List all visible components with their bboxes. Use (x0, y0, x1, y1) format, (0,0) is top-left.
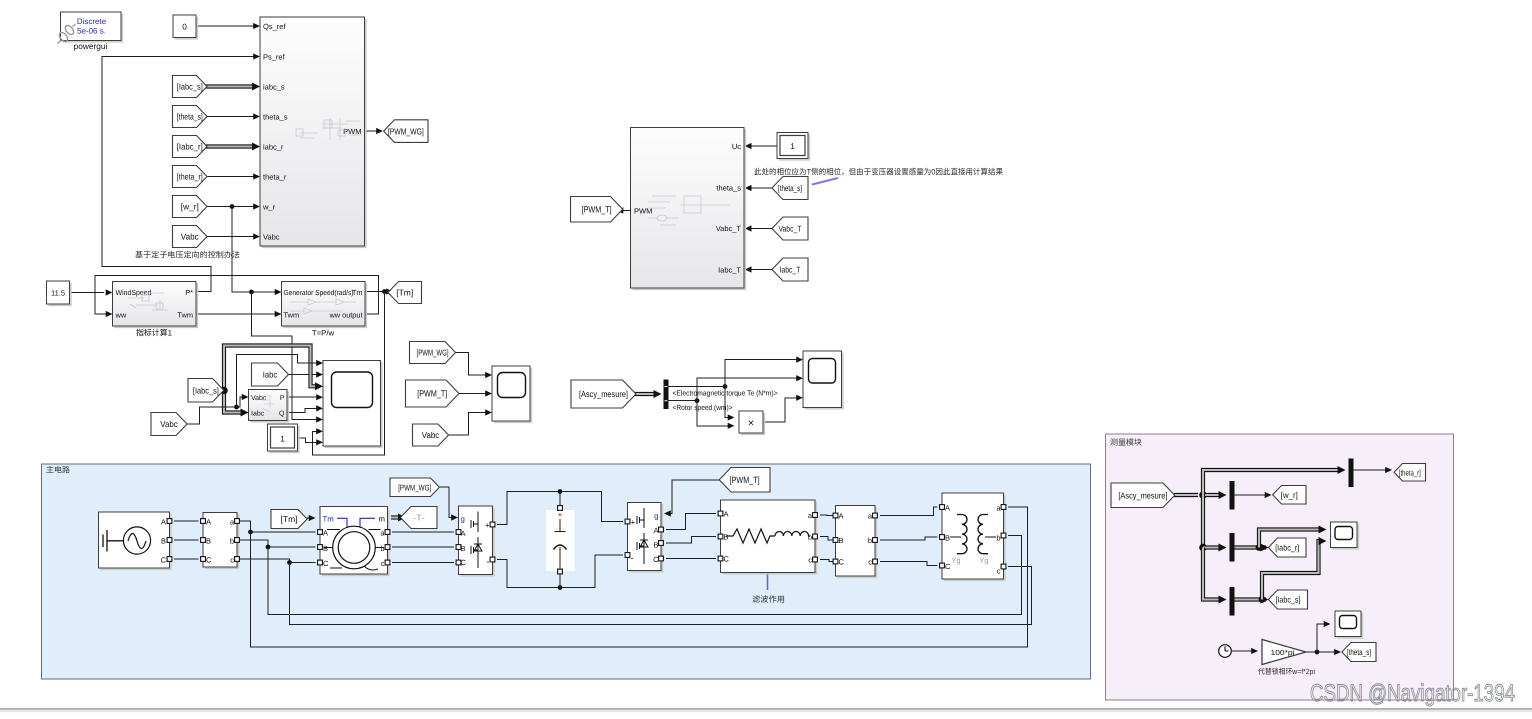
svg-text:g: g (654, 511, 658, 520)
svg-text:主电路: 主电路 (46, 466, 70, 475)
svg-text:c: c (230, 555, 234, 564)
svg-text:-: - (487, 557, 490, 567)
svg-text:<Electromagnetic torque Te (N*: <Electromagnetic torque Te (N*m)> (673, 388, 778, 397)
svg-text:c: c (997, 567, 1001, 576)
svg-text:<Rotor speed (wm)>: <Rotor speed (wm)> (673, 403, 733, 412)
svg-text:B: B (724, 533, 729, 542)
svg-text:Vabc: Vabc (251, 394, 267, 402)
svg-text:[Ascy_mesure]: [Ascy_mesure] (579, 389, 628, 399)
svg-text:+: + (558, 511, 563, 520)
svg-text:[Iabc_s]: [Iabc_s] (193, 385, 219, 395)
svg-text:[Tm]: [Tm] (396, 288, 413, 298)
svg-text:Vabc_T: Vabc_T (716, 224, 742, 233)
svg-text:100*pi: 100*pi (1271, 648, 1295, 657)
svg-text:[PWM_T]: [PWM_T] (417, 389, 447, 399)
svg-text:[theta_s]: [theta_s] (778, 183, 802, 193)
svg-text:[Tm]: [Tm] (281, 514, 298, 524)
svg-text:[theta_r]: [theta_r] (177, 172, 203, 182)
svg-text:Iabc: Iabc (263, 370, 278, 380)
svg-text:1: 1 (280, 433, 285, 443)
svg-text:-T-: -T- (413, 513, 425, 523)
svg-text:[PWM_T]: [PWM_T] (730, 475, 760, 485)
svg-text:此处的相位应为T侧的相位，但由于变压器设置感量为0因此直接用: 此处的相位应为T侧的相位，但由于变压器设置感量为0因此直接用计算结果 (754, 168, 1003, 177)
svg-text:Tm: Tm (323, 514, 334, 523)
svg-text:B: B (653, 541, 658, 550)
svg-text:C: C (724, 555, 730, 564)
svg-text:Uc: Uc (732, 142, 741, 151)
svg-text:c: c (868, 558, 872, 567)
svg-text:iabc_r: iabc_r (263, 142, 284, 151)
svg-text:1: 1 (790, 141, 795, 151)
svg-text:C: C (323, 559, 329, 568)
svg-text:ww output: ww output (329, 311, 363, 320)
svg-text:[Iabc_s]: [Iabc_s] (177, 82, 203, 92)
svg-text:CSDN @Navigator-1394: CSDN @Navigator-1394 (1310, 680, 1515, 707)
svg-text:A: A (323, 529, 328, 538)
svg-text:WindSpeed: WindSpeed (116, 288, 152, 297)
svg-text:Iabc_T: Iabc_T (779, 265, 800, 275)
svg-text:[PWM_WG]: [PWM_WG] (398, 482, 431, 492)
svg-text:Iabc: Iabc (251, 409, 265, 417)
svg-text:iabc_s: iabc_s (263, 82, 285, 91)
svg-text:[Iabc_r]: [Iabc_r] (1275, 543, 1299, 553)
svg-text:[theta_r]: [theta_r] (1399, 468, 1421, 477)
svg-text:Yg: Yg (951, 556, 960, 565)
svg-text:b: b (230, 536, 234, 545)
svg-text:Vabc: Vabc (181, 232, 200, 242)
svg-text:c: c (808, 556, 812, 565)
svg-text:B: B (206, 536, 211, 545)
svg-text:[Iabc_s]: [Iabc_s] (1275, 595, 1300, 605)
svg-text:[Iabc_r]: [Iabc_r] (177, 142, 203, 152)
svg-text:Vabc: Vabc (263, 232, 280, 241)
svg-text:theta_s: theta_s (263, 112, 288, 121)
svg-text:Discrete: Discrete (77, 17, 107, 26)
svg-text:[theta_s]: [theta_s] (177, 112, 203, 122)
svg-text:滤波作用: 滤波作用 (752, 595, 785, 604)
svg-text:0: 0 (182, 21, 187, 31)
svg-text:powergui: powergui (74, 41, 108, 51)
svg-text:Ps_ref: Ps_ref (263, 52, 286, 61)
svg-text:theta_s: theta_s (716, 184, 741, 193)
svg-text:+: + (485, 521, 490, 530)
svg-text:Twm: Twm (177, 311, 193, 320)
svg-text:Yg: Yg (979, 556, 988, 565)
svg-text:g: g (461, 514, 465, 523)
svg-text:Qs_ref: Qs_ref (263, 22, 286, 31)
svg-text:w_r: w_r (262, 202, 276, 211)
svg-text:P: P (280, 395, 285, 402)
svg-text:B: B (161, 536, 166, 545)
svg-text:Iabc_T: Iabc_T (718, 266, 741, 275)
svg-text:[theta_s]: [theta_s] (1347, 647, 1371, 657)
svg-text:测量模块: 测量模块 (1110, 438, 1142, 447)
svg-text:C: C (839, 558, 845, 567)
svg-text:A: A (206, 517, 211, 526)
svg-text:b: b (996, 534, 1000, 543)
svg-text:C: C (945, 562, 951, 571)
svg-text:A: A (839, 512, 844, 521)
svg-text:[PWM_WG]: [PWM_WG] (417, 348, 449, 358)
svg-text:[PWM_T]: [PWM_T] (582, 204, 612, 214)
svg-text:Generator Speed(rad/s): Generator Speed(rad/s) (284, 288, 354, 297)
svg-text:Vabc: Vabc (160, 419, 178, 429)
svg-text:Vabc_T: Vabc_T (778, 224, 801, 234)
svg-text:指标计算1: 指标计算1 (136, 329, 173, 338)
svg-text:A: A (945, 504, 950, 513)
svg-text:C: C (161, 555, 167, 564)
svg-text:c: c (381, 559, 385, 568)
svg-text:A: A (653, 526, 658, 535)
svg-text:+: + (631, 518, 636, 527)
svg-text:ww: ww (115, 311, 127, 320)
svg-text:B: B (839, 536, 844, 545)
svg-text:5e-06 s.: 5e-06 s. (77, 26, 106, 35)
svg-text:[Ascy_mesure]: [Ascy_mesure] (1118, 490, 1167, 500)
svg-text:[w_r]: [w_r] (1281, 490, 1298, 500)
svg-text:P*: P* (185, 288, 193, 297)
svg-text:Twm: Twm (284, 311, 300, 320)
svg-text:Tm: Tm (352, 288, 363, 297)
svg-text:C: C (206, 555, 212, 564)
svg-text:b: b (380, 544, 384, 553)
svg-text:theta_r: theta_r (263, 172, 287, 181)
svg-text:基于定子电压定向的控制办法: 基于定子电压定向的控制办法 (135, 251, 240, 260)
svg-text:Q: Q (279, 410, 285, 417)
svg-text:T=P/w: T=P/w (312, 329, 335, 338)
svg-text:代替锁相环w=f*2pi: 代替锁相环w=f*2pi (1258, 667, 1315, 676)
svg-text:-: - (631, 553, 634, 563)
svg-text:B: B (323, 544, 328, 553)
svg-text:B: B (945, 534, 950, 543)
svg-text:[PWM_WG]: [PWM_WG] (388, 126, 424, 136)
svg-text:Vabc: Vabc (422, 430, 440, 440)
svg-text:×: × (748, 418, 754, 430)
svg-text:11.5: 11.5 (51, 288, 65, 297)
svg-text:A: A (161, 517, 166, 526)
svg-text:b: b (868, 536, 872, 545)
svg-text:m: m (379, 514, 386, 523)
svg-text:A: A (724, 510, 729, 519)
svg-text:[w_r]: [w_r] (181, 202, 199, 212)
